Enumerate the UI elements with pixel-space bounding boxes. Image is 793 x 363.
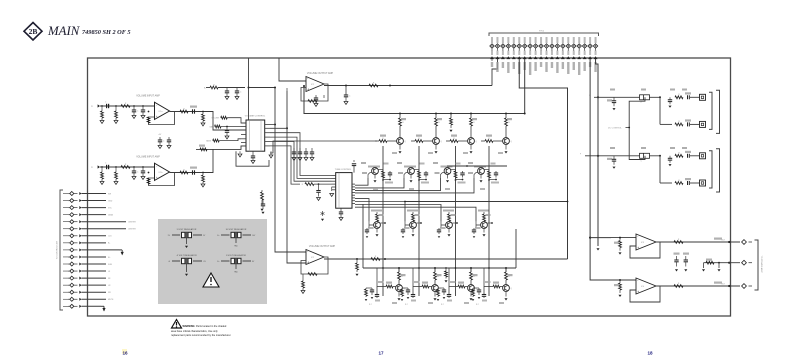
svg-text:VOLUME: VOLUME [211, 118, 219, 120]
transistor Q8 row2 [474, 166, 486, 168]
capacitor under opamp U4 [301, 269, 303, 277]
wire input amp 2 to volume IC [210, 146, 246, 173]
op-amp triangle IC3 [636, 234, 656, 250]
voltage regulator VR4 [231, 258, 241, 263]
wire pin19 down to out op-amps [590, 59, 611, 280]
arrow emitter Q13 [398, 291, 400, 296]
resistor shunt 2 [115, 105, 117, 107]
transistor Q14 row4 [434, 272, 437, 280]
wire split vertical [659, 156, 661, 183]
wire in VR4 [221, 260, 230, 262]
ground [301, 291, 305, 294]
capacitor base filter Q15 [447, 294, 451, 296]
capacitor below tone IC [340, 208, 342, 212]
wire out VR2 [243, 234, 252, 236]
ground [141, 116, 145, 119]
svg-text:WARNING: Parts located in the: WARNING: Parts located in the shaded [183, 325, 227, 328]
arrow down base filter [473, 236, 476, 238]
label pin number 4 [507, 51, 509, 56]
value labels row3 [379, 214, 384, 216]
ground below U1 cap [251, 161, 255, 164]
svg-text:+: + [307, 261, 309, 265]
resistor base Q2 [415, 140, 423, 143]
label pin 16 [573, 62, 575, 70]
arrow down net [260, 209, 263, 211]
pin left 7 of U1 [241, 145, 246, 147]
transistor Q9 row3 [371, 210, 382, 212]
capacitor bus filter x312 [311, 148, 313, 152]
ground wire VR3 [186, 264, 188, 272]
svg-text:TO POWER AMP: TO POWER AMP [760, 255, 763, 273]
resistor collector Q5 right [378, 169, 383, 171]
output shunt resistor [202, 111, 204, 113]
resistor base Q14 [422, 285, 429, 288]
junction split [659, 96, 661, 98]
feedback resistor U4 [308, 273, 317, 276]
resistor shunt 2 [115, 166, 117, 168]
feedback resistor vertical [148, 112, 150, 118]
pin left 3 of U2 [332, 180, 336, 182]
op-amp triangle IC1b [155, 163, 170, 180]
wire supply [218, 87, 245, 89]
capacitor base filter Q16 [482, 294, 486, 296]
bracket right pair [709, 151, 712, 188]
junction mid at border [728, 262, 730, 264]
right block main wire upper [594, 96, 660, 98]
capacitor on output [345, 86, 347, 96]
wire pin L9 [82, 249, 120, 251]
wire bus lower horizontal [363, 267, 516, 269]
transistor Q13 row4 [398, 272, 401, 280]
wire pin L4 [82, 214, 107, 216]
wire pin20 down feeding right blocks [596, 59, 598, 246]
wire bus vertical B [287, 91, 306, 263]
wire collector chain [487, 222, 492, 224]
connector pin 4 [507, 37, 509, 43]
arrow bend down [103, 306, 105, 311]
arrow pin 4 [506, 56, 510, 59]
capacitor series input [106, 165, 108, 169]
output wire [656, 285, 740, 287]
value labels lower right block [610, 147, 615, 149]
connector pin 7 [524, 37, 526, 43]
output resistor [180, 171, 188, 174]
resistor base Q7 [440, 175, 442, 179]
input arrow [98, 104, 100, 107]
output wire [170, 172, 211, 174]
label pin number 1 [491, 51, 493, 56]
svg-text:PJ: PJ [91, 167, 93, 169]
label net IC4 [714, 282, 722, 284]
svg-text:5 VOLT REGULATOR: 5 VOLT REGULATOR [177, 228, 197, 231]
connector pin 10 [540, 37, 542, 43]
arrow net end [596, 248, 599, 250]
arrow emitter Q8 [480, 174, 482, 178]
pin right 2 of U2 [352, 186, 355, 188]
label pin 20 [594, 62, 596, 72]
transistor Q6 row2 [404, 166, 416, 168]
capacitor mid cluster a [674, 253, 680, 255]
wire out VR3 [193, 260, 202, 262]
wire bus C to tone IC [270, 133, 332, 176]
svg-text:MAIN: MAIN [47, 24, 81, 38]
value labels top row1 resistors [610, 89, 615, 91]
wire bus lower to row4 [398, 268, 400, 272]
transistor Q1 row1 [399, 113, 401, 115]
resistor filter Q13 [365, 288, 367, 289]
ground pin filter U2 [331, 187, 333, 191]
arrow pin 20 [594, 56, 598, 59]
resistor on amp2 input wire [200, 148, 207, 151]
voltage regulator VR3 [182, 258, 192, 263]
resistor under opamp U4 [303, 269, 305, 272]
capacitor Q8 right [495, 171, 497, 173]
svg-text:VOLUME OUTPUT AMP: VOLUME OUTPUT AMP [309, 245, 336, 248]
output capacitor series [192, 170, 194, 174]
resistor to ground U4 [302, 278, 304, 281]
wire tone out 7 to Q11 base [355, 205, 441, 222]
wire base drop [377, 286, 386, 288]
pin right 6 of U1 [265, 145, 270, 147]
junction [389, 85, 391, 87]
transistor Q15 row4 [470, 272, 473, 280]
svg-text:BAL: BAL [210, 125, 213, 128]
arrow down VR3 [185, 274, 188, 276]
ground [310, 158, 314, 161]
junction pin20 upper block [597, 96, 599, 98]
op-amp triangle U4 [306, 250, 324, 265]
label pin 18 [583, 62, 585, 71]
svg-text:16: 16 [122, 351, 128, 356]
output wire U4 [327, 257, 329, 259]
wire to connector box A [690, 96, 700, 98]
svg-text:DATA: DATA [108, 213, 113, 216]
pin left 5 of U1 [241, 138, 246, 140]
label pin 8 [529, 62, 531, 75]
wire tone out 4 to Q8 base [355, 178, 474, 193]
wire feed vertical for lower bus [362, 204, 364, 268]
transistor Q3 row1 [470, 113, 472, 115]
ground [235, 97, 239, 100]
label net IC3 [714, 238, 722, 240]
voltage regulator VR2 [231, 232, 241, 237]
arrow pin 17 [577, 56, 581, 59]
arrow pin 19 [588, 56, 592, 59]
connector pin 6 [518, 37, 520, 43]
svg-text:-: - [637, 234, 638, 238]
op-amp triangle IC1a [155, 102, 170, 119]
arrow down mid c [703, 263, 705, 268]
junction pin19 branch [589, 237, 591, 239]
connector pin diamond IC4 [742, 284, 747, 289]
capacitor Q6 right [425, 171, 427, 173]
capacitor bus filter x294 [293, 148, 295, 152]
label pin number 17 [578, 51, 580, 56]
capacitor below U1 [252, 151, 254, 156]
svg-text:P702: P702 [539, 31, 545, 33]
output resistor R50 [369, 84, 378, 87]
capacitor C22 [168, 137, 170, 140]
wire vertical interconnect 2 [418, 146, 420, 296]
svg-text:VOLUME OUTPUT AMP: VOLUME OUTPUT AMP [307, 72, 334, 75]
wire split vertical [659, 97, 661, 124]
resistor collector Q8 right [484, 169, 489, 171]
resistor base Q15 [458, 285, 465, 288]
label pin 12 [551, 62, 553, 68]
output wire U3 [327, 84, 329, 86]
arrow emitter Q16 [505, 291, 507, 296]
resistor mid row R711 [706, 261, 714, 264]
pin top right of U2 [353, 166, 355, 173]
wire to connector box B [690, 123, 700, 125]
arrow down [449, 130, 452, 132]
output resistor [674, 241, 683, 244]
input arrow [98, 165, 100, 168]
capacitor C31 [226, 88, 228, 92]
wire vertical interconnect 4 [488, 146, 490, 296]
wire pin L17 to ground arrow [82, 305, 102, 307]
junction [356, 258, 358, 260]
svg-text:VOLUME INPUT AMP: VOLUME INPUT AMP [136, 156, 160, 159]
arrow ground filter [371, 297, 374, 299]
capacitor series A [687, 95, 689, 99]
electrolytic capacitor [640, 153, 650, 158]
connector box B [700, 180, 706, 186]
ground [201, 184, 205, 187]
arrow pin 10 [539, 56, 543, 59]
svg-text:17: 17 [378, 351, 384, 356]
wire out VR1 [193, 234, 202, 236]
ground emitter Q2 [435, 144, 437, 149]
capacitor base filter Q13 [375, 294, 379, 296]
svg-text:DC CONTROL: DC CONTROL [608, 128, 623, 130]
warning triangle in shaded box [203, 273, 219, 287]
arrow down [355, 274, 358, 276]
arrow ground filter 2 [401, 299, 404, 301]
wire opamp3 input [611, 237, 636, 239]
wire pin L11 [82, 263, 107, 265]
resistor shunt [101, 105, 103, 107]
transistor Q10 row3 [407, 210, 418, 212]
wire base row3 [405, 224, 410, 226]
output resistor [180, 110, 188, 113]
arrow down mid a [675, 269, 678, 271]
wire vertical interconnect 3 [455, 146, 457, 296]
ground [132, 177, 136, 180]
arrow pin 3 [501, 56, 505, 59]
capacitor control filter [226, 127, 228, 131]
resistor B1 [675, 123, 683, 126]
svg-text:10 VOLT REGULATOR: 10 VOLT REGULATOR [226, 228, 247, 231]
arrow ground Q9 [376, 228, 378, 232]
wire base drop [484, 286, 493, 288]
output shunt resistor [202, 172, 204, 174]
connector pin 9 [535, 37, 537, 43]
wire out VR4 [243, 260, 252, 262]
arrow pin 12 [550, 56, 554, 59]
svg-text:18: 18 [647, 351, 653, 356]
capacitor filter Q16 [478, 288, 480, 290]
resistor filter Q14 [401, 288, 403, 289]
svg-text:B+: B+ [204, 88, 206, 90]
wire bus vertical A [275, 88, 306, 253]
transistor Q16 row4 [505, 272, 508, 280]
arrow down base filter [402, 236, 405, 238]
feedback loop [301, 84, 328, 101]
arrow emitter Q6 [410, 174, 412, 178]
wire base row3 [476, 224, 481, 226]
capacitor under opamp U3 a [315, 95, 317, 98]
arrow pin 18 [583, 56, 587, 59]
ground [167, 146, 171, 149]
label pin number 15 [567, 51, 569, 56]
wire base drop [449, 286, 458, 288]
feedback loop [630, 286, 660, 302]
crossed net below U2 with arrow [322, 211, 324, 216]
pin left 2 of U2 [332, 177, 336, 179]
ground [100, 182, 104, 185]
label pin 7 [524, 62, 526, 70]
wire input [100, 166, 154, 168]
connector pin 13 [556, 37, 558, 43]
label pin 14 [562, 62, 564, 69]
wire stub after diamond [749, 241, 753, 243]
capacitor above U2 [352, 163, 356, 165]
resistor base Q16 [493, 285, 500, 288]
value labels row2 [361, 162, 366, 164]
connector pin 3 [502, 37, 504, 43]
capacitor series B [687, 181, 689, 185]
output resistor U4 [371, 258, 380, 261]
label pin number 19 [589, 51, 591, 56]
junction dots [384, 258, 386, 260]
label pin number 12 [551, 51, 553, 56]
svg-text:SW: SW [108, 193, 111, 195]
capacitor series B [687, 122, 689, 126]
capacitor bus filter x306 [305, 148, 307, 152]
capacitor Q7 right [462, 171, 464, 173]
value labels row4 [401, 274, 406, 276]
wire collector chain [452, 222, 457, 224]
feedback resistor [308, 100, 317, 103]
pin right 5 of U2 [352, 194, 355, 196]
svg-text:-: - [307, 250, 308, 254]
pin right 1 of U1 [265, 124, 270, 126]
input resistor to ground [619, 238, 621, 241]
ground [114, 121, 118, 124]
wire bus F [270, 146, 300, 184]
wire tone out 5 to Q9 base [355, 199, 369, 222]
svg-text:8 VOLT REGULATOR: 8 VOLT REGULATOR [226, 254, 246, 257]
connector pin 11 [546, 37, 548, 43]
label pin 17 [578, 62, 580, 75]
feedback resistor vertical U4 [346, 259, 348, 262]
wire pin L1 [82, 193, 107, 195]
arrow down mid b [684, 269, 687, 271]
label pin 11 [545, 62, 547, 72]
connector pin 20 [595, 37, 597, 43]
transistor Q7 row2 [441, 166, 453, 168]
arrow down mid d [718, 263, 720, 268]
capacitor mid bus C60 [450, 113, 452, 115]
connector pin 8 [529, 37, 531, 43]
capacitor filter Q14 [407, 288, 409, 290]
label pin 5 [513, 62, 515, 69]
capacitor base Q11 [438, 228, 440, 230]
connector pin 5 [513, 37, 515, 43]
wire in VR1 [172, 234, 180, 236]
capacitor shunt 2 [142, 105, 144, 107]
wire pin L2 [82, 200, 107, 202]
output wire [170, 111, 211, 113]
label pin 4 [507, 62, 509, 73]
arrow pin 1 [490, 56, 494, 59]
wire from connector pin 1 (runs along border) [491, 58, 493, 61]
wire opamp4 input [611, 279, 636, 281]
arrow pin 13 [555, 56, 559, 59]
wire pin L15 [82, 291, 107, 293]
resistor filter Q16 [472, 288, 474, 289]
arrow ground filter [443, 297, 446, 299]
ground [344, 102, 348, 105]
arrow ground filter 2 [472, 299, 475, 301]
connector pin 18 [584, 37, 586, 43]
wire pin L8 [82, 242, 107, 244]
wire input from bus [279, 58, 306, 81]
label pin number 18 [584, 51, 586, 56]
wire supply extension [249, 87, 276, 89]
arrow pin 5 [512, 56, 516, 59]
connector box A [700, 94, 706, 100]
wire pin L3 [82, 207, 107, 209]
capacitor above shaded box [262, 200, 264, 204]
label pin 10 [540, 62, 542, 67]
svg-text:VOLUME CONTROL: VOLUME CONTROL [245, 115, 266, 117]
voltage regulator VR1 [182, 232, 192, 237]
arrow emitter Q5 [374, 174, 376, 178]
junction [345, 85, 347, 87]
label pin 1 [491, 62, 493, 67]
arrow pin 11 [545, 56, 549, 59]
connector pin 19 [589, 37, 591, 43]
connector P701 bracket [60, 190, 63, 310]
arrow down at junction [668, 164, 671, 166]
arrow emitter Q15 [470, 291, 472, 296]
transistor Q5 row2 [368, 166, 380, 168]
resistor base Q1 [379, 140, 387, 143]
arrow down above shaded box [261, 212, 264, 214]
pin right 7 of U2 [352, 200, 355, 202]
arrow ground Q11 [448, 228, 450, 232]
ground [225, 97, 229, 100]
arrow ground filter [407, 297, 410, 299]
electrolytic capacitor [640, 95, 650, 100]
connector pin 14 [562, 37, 564, 43]
pin right 8 of U2 [352, 202, 355, 204]
wire from connector pin 2 to output [492, 59, 498, 86]
wire in VR2 [221, 234, 230, 236]
svg-text:749850 SH 2 OF 5: 749850 SH 2 OF 5 [82, 29, 131, 36]
pin right 4 of U1 [265, 136, 270, 138]
capacitor shunt 2 [142, 166, 144, 168]
pin right 2 of U1 [265, 127, 270, 129]
wire dc control link [629, 97, 645, 159]
connector pin 1 [491, 37, 493, 43]
ground below U2 [339, 218, 343, 221]
svg-text:BASS: BASS [206, 139, 212, 142]
connector pin 17 [578, 37, 580, 43]
arrow pin 14 [561, 56, 565, 59]
